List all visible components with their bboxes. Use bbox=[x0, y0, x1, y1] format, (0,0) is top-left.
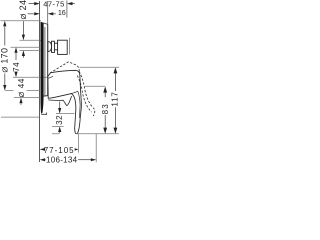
dim 77-105 bbox=[40, 148, 79, 151]
dim 32 bbox=[58, 102, 61, 134]
dim 83 bbox=[103, 86, 107, 133]
plate front face bbox=[44, 24, 48, 96]
svg-text:32: 32 bbox=[55, 115, 64, 125]
extension line lever-outer (83 top) bbox=[85, 85, 105, 87]
plate thick bar bbox=[41, 22, 44, 114]
function box bbox=[58, 40, 68, 54]
extension line knob bottom bbox=[20, 49, 41, 51]
svg-text:Ø 44: Ø 44 bbox=[16, 78, 26, 97]
svg-text:16: 16 bbox=[58, 8, 66, 17]
extension line 32 top bbox=[56, 113, 75, 115]
wall line bbox=[40, 1, 47, 162]
svg-text:83: 83 bbox=[101, 103, 110, 114]
plate top slant bbox=[43, 23, 47, 25]
svg-text:74: 74 bbox=[12, 62, 21, 72]
extension line plate bottom bbox=[5, 90, 40, 92]
handle lever dashed (raised) bbox=[50, 62, 95, 116]
extension line 47-75 right bbox=[66, 1, 68, 18]
bottom extension lines bbox=[78, 134, 80, 153]
svg-text:77-105: 77-105 bbox=[44, 146, 75, 155]
extension line plate front top bbox=[47, 1, 49, 24]
svg-text:117: 117 bbox=[111, 91, 120, 106]
extension line lever tip bottom bbox=[52, 133, 119, 135]
extension line dashed-top (117 top) bbox=[80, 66, 120, 68]
extension line knob axis bbox=[11, 46, 40, 48]
plate inner line bbox=[44, 27, 46, 96]
dim 47-75 bbox=[29, 2, 75, 5]
dim 74 bbox=[14, 47, 17, 77]
handle lever solid bbox=[48, 70, 81, 133]
dim 16 bbox=[28, 12, 56, 15]
dim O24 outside arrows bbox=[22, 21, 25, 58]
svg-text:Ø 170: Ø 170 bbox=[0, 48, 10, 73]
knob (diverter) bbox=[48, 40, 67, 54]
dim O170 bbox=[3, 21, 6, 91]
box extra line bbox=[68, 38, 70, 55]
extension line box top bbox=[20, 39, 41, 41]
extension line 32 bottom bbox=[52, 125, 64, 127]
extension line handle axis bbox=[13, 76, 50, 78]
svg-text:106-134: 106-134 bbox=[46, 156, 78, 165]
extension line y117 bbox=[1, 116, 40, 118]
extension line handle bottom bbox=[14, 97, 40, 99]
extension line plate top bbox=[1, 20, 42, 22]
svg-text:Ø 24: Ø 24 bbox=[18, 0, 28, 20]
dim 106-134 bbox=[40, 158, 96, 161]
dim 117 bbox=[114, 67, 118, 134]
